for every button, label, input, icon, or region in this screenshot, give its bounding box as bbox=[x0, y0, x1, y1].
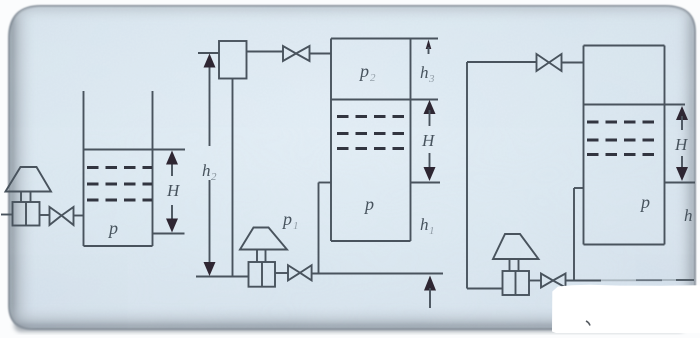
tank T1 bottom bbox=[84, 245, 153, 247]
tank T2 side tap stub bbox=[319, 182, 332, 184]
tank T3 top bbox=[584, 45, 665, 47]
tap down pipe T3 bbox=[573, 188, 575, 281]
svg-text:2: 2 bbox=[211, 171, 217, 183]
hand valve V3 (bowtie) bbox=[288, 265, 312, 280]
tap down pipe bbox=[318, 183, 320, 275]
liquid level dashes T3 bbox=[587, 122, 660, 155]
svg-text:p: p bbox=[363, 194, 374, 214]
H2 dim down arrow bbox=[424, 167, 436, 181]
pipe CV1 body to valve V1 bbox=[40, 214, 50, 216]
liquid surface line T2 bbox=[331, 99, 438, 101]
h3 small up arrow bbox=[426, 40, 432, 50]
svg-text:1: 1 bbox=[293, 220, 299, 232]
H2 dim upper stem bbox=[429, 110, 431, 126]
H3 dim lower stem bbox=[681, 156, 683, 170]
hand valve V4 (bowtie) bbox=[537, 54, 562, 71]
control valve CV3 body divider bbox=[515, 271, 517, 295]
svg-text:h: h bbox=[420, 63, 429, 82]
svg-text:H: H bbox=[421, 131, 436, 150]
h2 up arrow bbox=[204, 54, 216, 68]
dimension H1 down arrow bbox=[166, 219, 178, 233]
dimension H1 upper stem bbox=[171, 160, 173, 176]
card drop shadow bbox=[14, 318, 686, 332]
h2 dimension line lower bbox=[209, 180, 211, 268]
svg-text:H: H bbox=[166, 181, 181, 200]
h2 dimension top tick bbox=[198, 52, 219, 54]
liquid level dashes T2 bbox=[337, 117, 409, 149]
dimension H1 lower stem bbox=[171, 205, 173, 222]
svg-text:3: 3 bbox=[428, 73, 435, 85]
card edge shading left bbox=[9, 6, 35, 329]
h2 down arrow bbox=[204, 262, 216, 276]
control valve CV1 actuator (trapezoid) bbox=[6, 167, 52, 192]
control valve CV2 body bbox=[249, 262, 276, 287]
up arrow stem bbox=[429, 288, 431, 308]
svg-text:2: 2 bbox=[370, 72, 376, 84]
bottom pipe h2-tick to CV2 body bbox=[196, 276, 248, 278]
svg-text:p: p bbox=[281, 209, 292, 229]
control valve CV2 actuator (trapezoid) bbox=[240, 228, 287, 250]
pipe CV3 body to valve V5 bbox=[529, 280, 541, 282]
tank T2 right wall bbox=[410, 39, 412, 242]
svg-text:1: 1 bbox=[429, 225, 435, 237]
svg-text:p: p bbox=[639, 192, 650, 212]
transmitter box U2 bbox=[219, 41, 247, 79]
hand valve V2 (bowtie) bbox=[283, 46, 310, 61]
tick line right of T3 bbox=[665, 182, 696, 184]
H2 dim lower stem bbox=[429, 153, 431, 170]
H3 dim down arrow bbox=[676, 167, 688, 181]
control valve CV1 stem bbox=[20, 192, 22, 203]
card edge shading top bbox=[9, 6, 695, 22]
svg-text:h: h bbox=[202, 161, 211, 180]
up arrow under pipe bbox=[424, 276, 436, 291]
loop left vertical pipe bbox=[466, 62, 468, 289]
h2 dimension line upper bbox=[209, 62, 211, 146]
hand valve V1 (bowtie) bbox=[50, 207, 74, 225]
svg-text:p: p bbox=[358, 61, 369, 81]
H3 dim upper stem bbox=[681, 116, 683, 130]
control valve CV3 stem bbox=[509, 259, 511, 271]
pipe into CV1 from left bbox=[1, 214, 13, 216]
control valve CV2 stem bbox=[256, 250, 258, 263]
tank T2 bottom bbox=[331, 240, 411, 242]
h3 arrow stem bbox=[428, 47, 430, 54]
svg-text:p: p bbox=[107, 218, 118, 238]
tank T2 left wall bbox=[330, 39, 332, 242]
pipe V2 to tank T2 bbox=[310, 53, 332, 55]
card edge shading right bbox=[676, 6, 695, 329]
control valve CV1 body bbox=[13, 202, 40, 226]
hand valve V5 (bowtie) bbox=[541, 274, 566, 288]
pipe V4 to tank T3 bbox=[562, 62, 584, 64]
pipe CV2 body to valve V3 bbox=[275, 272, 288, 274]
liquid surface line T3 bbox=[584, 104, 686, 106]
svg-text:H: H bbox=[674, 135, 689, 154]
mid tick line right of T2 bbox=[411, 182, 441, 184]
control valve CV1 body divider bbox=[25, 202, 27, 226]
svg-text:h: h bbox=[684, 206, 693, 225]
H3 dim up arrow bbox=[676, 106, 688, 120]
tank T3 bottom bbox=[584, 244, 665, 246]
pipe box U2 down to bottom pipe bbox=[232, 79, 234, 277]
dimension H1 up arrow bbox=[166, 151, 178, 165]
tank T3 side tap stub bbox=[574, 187, 584, 189]
card edge shading bottom bbox=[9, 306, 695, 329]
bottom pipe V5 to right edge (faded segments) bbox=[566, 280, 602, 282]
small dark mark on patch bbox=[586, 321, 590, 326]
tank T1 left wall bbox=[83, 91, 85, 246]
tank T2 top bbox=[331, 38, 411, 40]
tank T3 left wall bbox=[583, 46, 585, 245]
liquid level dashes T1 bbox=[87, 168, 152, 201]
tank T2 top extension (h3 tick) bbox=[411, 38, 439, 40]
bottom pipe V3 to right bbox=[312, 273, 443, 275]
control valve CV3 body bbox=[503, 271, 530, 295]
liquid surface line T1 bbox=[84, 149, 186, 151]
H2 dim up arrow bbox=[424, 100, 436, 114]
pipe V1 to tank T1 bbox=[74, 215, 84, 217]
loop top pipe bbox=[467, 61, 537, 63]
white watermark patch bottom right bbox=[552, 285, 700, 333]
pipe box U2 to valve V2 bbox=[247, 51, 284, 53]
tank T3 right wall bbox=[664, 46, 666, 245]
svg-text:h: h bbox=[420, 215, 429, 234]
control valve CV2 body divider bbox=[261, 262, 263, 287]
control valve CV3 actuator (trapezoid) bbox=[493, 234, 539, 259]
loop bottom pipe to CV3 bbox=[467, 288, 503, 290]
tank T1 right wall bbox=[152, 91, 154, 246]
dimension H1 bottom tick bbox=[153, 233, 185, 235]
